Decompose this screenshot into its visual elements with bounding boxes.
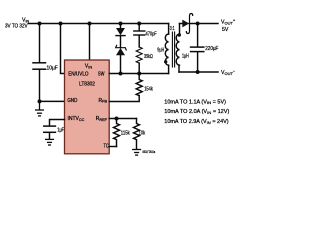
svg-text:VOUT−: VOUT− — [221, 68, 236, 76]
transformer T1 primary — [165, 24, 168, 74]
svg-text:1µH: 1µH — [182, 54, 189, 60]
node: clamp-SW — [119, 72, 123, 76]
node: primary phase dot — [164, 60, 167, 63]
transformer T1 secondary — [176, 24, 179, 73]
wire: input cap branch upper — [39, 24, 41, 63]
svg-text:115k: 115k — [121, 130, 130, 136]
svg-text:39kΩ: 39kΩ — [144, 54, 153, 60]
ground: input — [36, 101, 44, 116]
wire: clamp branch top — [120, 24, 122, 29]
svg-text:3:1: 3:1 — [170, 26, 175, 32]
wire: VOUT- — [179, 71, 218, 73]
svg-text:GND: GND — [67, 98, 77, 104]
wire: snubber cap top — [138, 24, 140, 31]
wire: diode to VOUT+ — [189, 23, 218, 25]
wire: INTVCC branch — [50, 120, 65, 126]
svg-text:10k: 10k — [139, 130, 146, 136]
wire: EN/UVLO branch — [61, 24, 65, 74]
svg-text:9µH: 9µH — [157, 48, 164, 54]
capacitor C3 470pF — [134, 31, 145, 35]
svg-text:220µF: 220µF — [205, 46, 218, 52]
wire: VIN pin drop — [89, 24, 91, 61]
svg-text:10mA TO 2.0A (VIN = 12V): 10mA TO 2.0A (VIN = 12V) — [164, 109, 229, 115]
svg-text:VOUT+: VOUT+ — [221, 18, 236, 26]
wire: secondary top to diode — [180, 23, 183, 25]
node: snubber tap — [137, 22, 141, 26]
svg-text:LT8302: LT8302 — [79, 82, 95, 88]
wire: output cap lower — [197, 52, 199, 72]
svg-text:1µF: 1µF — [57, 128, 64, 134]
transformer core — [172, 32, 174, 67]
node: snubber-SW — [137, 72, 141, 76]
node: RREF junction — [115, 117, 119, 121]
node: EN/UVLO tap — [59, 22, 63, 26]
wire: TC — [109, 146, 116, 148]
svg-text:10µF: 10µF — [47, 65, 58, 71]
wire: input cap branch lower — [39, 70, 41, 102]
diode D1 — [116, 28, 125, 36]
svg-text:154k: 154k — [144, 86, 153, 92]
resistor R1 39k — [136, 47, 142, 63]
wire: RREF — [109, 118, 136, 120]
wire: SW to primary — [109, 73, 168, 75]
wire: RFB — [109, 96, 139, 102]
svg-text:470pF: 470pF — [146, 32, 157, 38]
wire: clamp bottom — [120, 55, 122, 73]
node: output cap top — [196, 22, 200, 26]
wire: 1uF lower — [49, 133, 51, 139]
svg-text:TC: TC — [104, 144, 109, 150]
node: GND junction — [38, 99, 42, 103]
IC U1 LT8302 — [65, 60, 110, 154]
wire: snubber bottom — [138, 63, 140, 73]
svg-text:EN/UVLO: EN/UVLO — [68, 72, 88, 78]
svg-text:SW: SW — [98, 72, 105, 78]
svg-text:5V: 5V — [222, 27, 229, 33]
wire: GND pin — [40, 100, 65, 102]
wire: snubber mid — [138, 35, 140, 47]
capacitor C1 10uF — [33, 63, 46, 69]
capacitor C4 220uF — [191, 47, 204, 52]
node: input cap tap — [38, 22, 42, 26]
node: output cap bottom — [196, 70, 200, 74]
ground: RREF — [133, 150, 141, 156]
node: secondary phase dot — [178, 33, 181, 36]
resistor R2 154k — [136, 74, 142, 96]
node: clamp tap — [119, 22, 123, 26]
resistor R4 10k — [134, 119, 140, 150]
wire: clamp mid — [120, 36, 122, 48]
diode D2 schottky — [182, 14, 192, 34]
wire: output cap upper — [197, 24, 199, 47]
resistor R3 115k — [114, 119, 120, 147]
zener DZ — [116, 45, 127, 55]
wire: VIN top rail — [29, 23, 169, 25]
svg-text:10mA TO 1.1A (VIN = 5V): 10mA TO 1.1A (VIN = 5V) — [164, 99, 226, 105]
capacitor C2 1uF — [44, 126, 56, 132]
svg-text:10mA TO 2.9A (VIN = 24V): 10mA TO 2.9A (VIN = 24V) — [164, 119, 229, 125]
node: VIN pin tap — [88, 22, 92, 26]
svg-text:3V TO 32V: 3V TO 32V — [5, 24, 28, 30]
ground: INTVCC — [46, 139, 54, 145]
svg-text:8302 TA01a: 8302 TA01a — [143, 150, 156, 154]
